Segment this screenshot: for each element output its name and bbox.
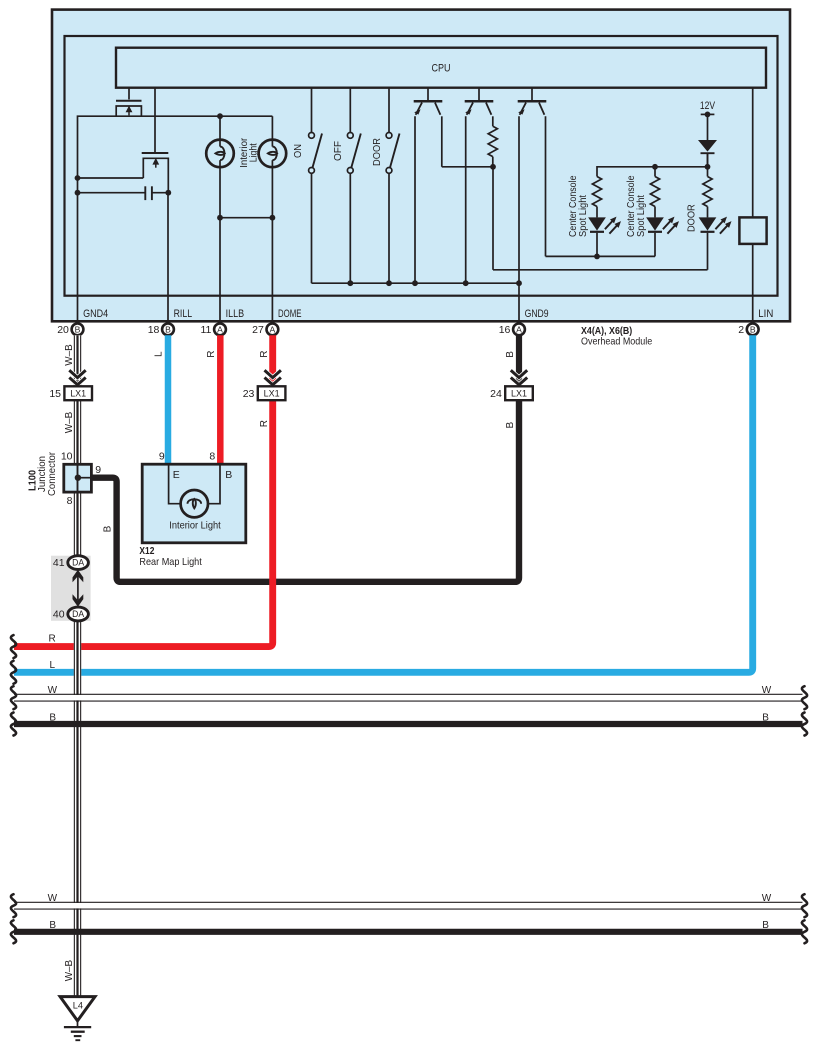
svg-text:B: B: [225, 469, 232, 481]
svg-text:R: R: [49, 634, 56, 645]
svg-text:B: B: [49, 920, 56, 931]
svg-text:ON: ON: [292, 144, 304, 158]
svg-text:W–B: W–B: [64, 344, 75, 366]
svg-text:20: 20: [57, 324, 69, 336]
svg-text:DA: DA: [72, 609, 84, 619]
svg-text:8: 8: [209, 451, 215, 463]
svg-text:R: R: [206, 351, 217, 358]
svg-text:B: B: [505, 351, 516, 358]
svg-text:LX1: LX1: [264, 389, 280, 400]
svg-text:18: 18: [148, 324, 160, 336]
svg-text:9: 9: [159, 451, 165, 463]
svg-text:L: L: [154, 351, 165, 357]
svg-text:12V: 12V: [700, 100, 716, 112]
svg-text:DA: DA: [72, 558, 84, 568]
svg-text:23: 23: [243, 388, 255, 400]
svg-text:L: L: [50, 660, 56, 671]
svg-text:A: A: [217, 325, 223, 335]
svg-text:W: W: [762, 685, 772, 696]
svg-text:R: R: [259, 351, 270, 358]
svg-text:W: W: [48, 893, 58, 904]
svg-text:B: B: [762, 920, 769, 931]
svg-text:W–B: W–B: [64, 411, 75, 433]
svg-text:B: B: [49, 712, 56, 723]
svg-text:LX1: LX1: [70, 389, 86, 400]
svg-text:A: A: [270, 325, 276, 335]
svg-text:LX1: LX1: [511, 389, 527, 400]
svg-text:B: B: [762, 712, 769, 723]
svg-text:CPU: CPU: [432, 62, 451, 74]
svg-text:ILLB: ILLB: [226, 308, 245, 320]
svg-text:B: B: [165, 325, 171, 335]
svg-text:Connector: Connector: [47, 451, 58, 496]
svg-text:OFF: OFF: [332, 141, 344, 161]
svg-text:41: 41: [53, 557, 65, 569]
svg-text:2: 2: [738, 324, 744, 336]
svg-text:10: 10: [61, 450, 73, 462]
svg-text:RILL: RILL: [174, 308, 193, 320]
svg-text:A: A: [516, 325, 522, 335]
svg-text:W: W: [762, 893, 772, 904]
svg-text:L4: L4: [73, 1001, 83, 1011]
svg-text:Overhead Module: Overhead Module: [581, 336, 652, 348]
svg-text:LIN: LIN: [758, 308, 773, 320]
svg-text:Light: Light: [247, 143, 259, 162]
svg-text:B: B: [750, 325, 756, 335]
svg-text:Interior Light: Interior Light: [169, 519, 220, 531]
svg-text:B: B: [505, 422, 516, 429]
svg-text:15: 15: [49, 388, 61, 400]
svg-text:27: 27: [252, 324, 264, 336]
svg-text:E: E: [173, 469, 180, 481]
svg-text:R: R: [259, 420, 270, 427]
svg-text:DOOR: DOOR: [371, 138, 383, 166]
svg-text:B: B: [103, 525, 114, 532]
svg-text:W: W: [48, 685, 58, 696]
svg-text:Spot Light: Spot Light: [578, 195, 589, 237]
svg-text:GND4: GND4: [83, 308, 108, 320]
svg-text:DOME: DOME: [278, 308, 302, 320]
svg-text:DOOR: DOOR: [686, 204, 698, 232]
svg-text:Spot Light: Spot Light: [636, 195, 647, 237]
svg-text:8: 8: [67, 495, 73, 507]
svg-text:W–B: W–B: [64, 960, 75, 982]
svg-text:24: 24: [490, 388, 502, 400]
svg-text:Rear Map Light: Rear Map Light: [139, 556, 201, 568]
svg-text:B: B: [75, 325, 81, 335]
svg-text:9: 9: [95, 464, 101, 476]
svg-text:11: 11: [200, 324, 211, 336]
svg-text:40: 40: [53, 608, 65, 620]
svg-text:16: 16: [499, 324, 511, 336]
svg-text:GND9: GND9: [525, 308, 549, 320]
